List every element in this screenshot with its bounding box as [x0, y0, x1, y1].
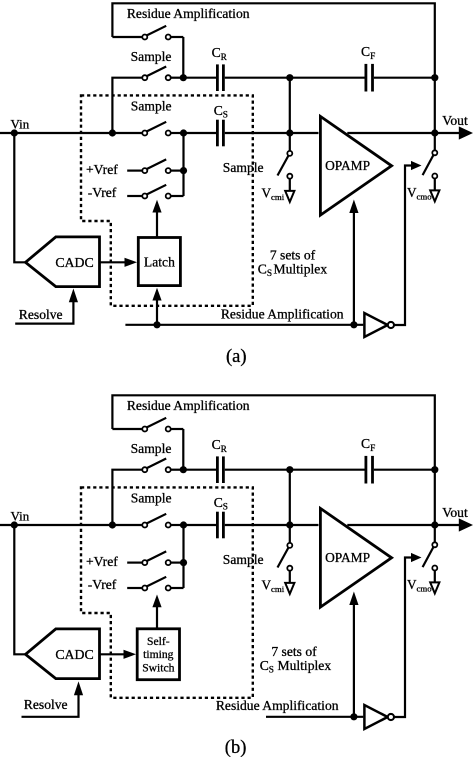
- wire: inverter output to Vcmo control (b): [394, 558, 412, 718]
- wire: summing node to opamp (b): [290, 524, 319, 526]
- switch: +Vref (a): [127, 159, 183, 173]
- svg-text:-Vref: -Vref: [88, 185, 117, 200]
- wire: node to C_S (a): [184, 132, 217, 134]
- CADC comparator block (a): [26, 237, 100, 287]
- wire: resolve input (a): [15, 302, 73, 324]
- junction: C_F / feedback node (a): [431, 74, 438, 81]
- svg-text:CADC: CADC: [55, 255, 93, 270]
- arrow: Vcmo switch control (a): [411, 161, 422, 170]
- capacitor C_R (a): [217, 64, 223, 91]
- label: 7 sets of C_S multiplex (a): [258, 247, 328, 279]
- wire: C_R row left leg (a): [112, 78, 142, 133]
- wire: vref column (a): [182, 133, 184, 196]
- wire: summing column C_R row to input row (a): [289, 78, 291, 133]
- latch box (a): [138, 238, 180, 286]
- ground: Vcmi (a): [285, 191, 294, 202]
- wire: residue-amplification feedback top (a): [112, 3, 434, 77]
- svg-text:OPAMP: OPAMP: [325, 158, 370, 173]
- capacitor C_S (b): [217, 512, 223, 539]
- wire: node to C_S (b): [184, 524, 217, 526]
- switch: sample C_R (a): [142, 67, 183, 81]
- wire: vref column (b): [182, 525, 184, 588]
- wire: C_R to summing node (b): [225, 469, 290, 471]
- junction: C_F / feedback node (b): [431, 466, 438, 473]
- switch: -Vref (a): [127, 185, 183, 199]
- svg-text:CADC: CADC: [55, 647, 93, 662]
- arrow: residue amplification enable to opamp (a): [349, 200, 358, 325]
- svg-text:Resolve: Resolve: [24, 697, 68, 712]
- wire: residue amplification bottom line (a): [125, 324, 363, 326]
- svg-text:Vout: Vout: [442, 505, 468, 520]
- svg-text:(a): (a): [226, 347, 247, 367]
- junction: Vin sample column (b): [109, 521, 116, 528]
- svg-text:Multiplex: Multiplex: [274, 261, 328, 276]
- svg-text:Sample: Sample: [131, 99, 172, 114]
- inverter (a): [364, 313, 394, 337]
- junction: +vref node (a): [180, 167, 187, 174]
- junction: top summing node (b): [286, 466, 293, 473]
- ground: Vcmo (a): [430, 190, 439, 201]
- svg-text:Residue Amplification: Residue Amplification: [216, 698, 339, 713]
- svg-text:timing: timing: [143, 648, 173, 661]
- wire: node to C_R (b): [183, 469, 216, 471]
- svg-text:Residue Amplification: Residue Amplification: [127, 6, 250, 21]
- svg-text:Residue Amplification: Residue Amplification: [221, 306, 344, 321]
- junction: Vin CADC tap (b): [11, 521, 18, 528]
- junction: C_R switch node (b): [180, 466, 187, 473]
- wire: residue switch down to C_R node (b): [182, 429, 184, 470]
- wire: feedback node down to Vout node (b): [434, 470, 436, 525]
- CADC comparator block (b): [26, 629, 100, 679]
- junction: opamp input summing node (a): [286, 129, 293, 136]
- svg-text:Latch: Latch: [144, 255, 175, 270]
- dashed boundary: C_S multiplex block (a): [81, 95, 253, 305]
- switch: sample C_R (b): [142, 459, 183, 473]
- switch: -Vref (b): [127, 577, 183, 591]
- arrow: resolve into CADC (b): [74, 681, 83, 695]
- dashed boundary: C_S multiplex block (b): [81, 487, 253, 697]
- wire: C_R to summing node (a): [225, 77, 290, 79]
- wire: C_S to summing node (b): [225, 524, 290, 526]
- wire: opamp output / Vout row (a): [347, 132, 459, 134]
- wire: node to C_R (a): [183, 77, 216, 79]
- switch: Vcmi sampling (b): [278, 525, 293, 582]
- svg-text:-Vref: -Vref: [88, 577, 117, 592]
- wire: residue switch down to C_R node (a): [182, 37, 184, 78]
- junction: opamp enable tap (b): [350, 713, 357, 720]
- wire: C_S to summing node (a): [225, 132, 290, 134]
- ground: Vcmi (b): [285, 583, 294, 594]
- wire: summing node to opamp (a): [290, 132, 319, 134]
- switch: Vcmi sampling (a): [278, 133, 293, 190]
- capacitor C_F (a): [366, 64, 373, 92]
- arrow: latch strobe to -Vref switch (a): [152, 200, 161, 238]
- junction: latch enable tap (a): [153, 321, 160, 328]
- wire: feedback node down to Vout node (a): [434, 78, 436, 133]
- output arrow: Vout (b): [459, 518, 473, 531]
- wire: C_F to Vout node (b): [374, 469, 435, 471]
- capacitor C_F (b): [366, 456, 373, 484]
- arrow: residue amplification enable to opamp (b): [349, 592, 358, 717]
- svg-text:Self-: Self-: [147, 635, 170, 648]
- wire: residue amplification bottom line (b): [266, 716, 363, 718]
- junction: opamp input summing node (b): [286, 521, 293, 528]
- svg-text:7 sets of: 7 sets of: [271, 644, 317, 659]
- ground: Vcmo (b): [430, 582, 439, 593]
- op-amp U1 (a): [320, 116, 391, 215]
- label: 7 sets of C_S multiplex (b): [260, 644, 332, 675]
- junction: Vout node (a): [431, 129, 438, 136]
- junction: +vref node (b): [180, 559, 187, 566]
- wire: Vin down to CADC (a): [14, 133, 25, 262]
- wire: Vin input row (a): [0, 132, 142, 134]
- capacitor C_R (b): [217, 456, 223, 483]
- switch: Vcmo output (b): [423, 525, 438, 582]
- junction: Vout node (b): [431, 521, 438, 528]
- switch: residue amplification (a): [112, 26, 183, 40]
- wire: resolve input (b): [22, 695, 79, 717]
- wire: C_R row left leg (b): [112, 470, 142, 525]
- svg-text:Switch: Switch: [142, 661, 174, 674]
- wire: Vin down to CADC (b): [14, 525, 25, 654]
- arrow: resolve into CADC (a): [69, 289, 78, 303]
- wire: summing column C_R row to input row (b): [289, 470, 291, 525]
- junction: C_S switch node (a): [180, 129, 187, 136]
- wire: inverter output to Vcmo control (a): [394, 166, 412, 326]
- switch: residue amplification (b): [112, 418, 183, 432]
- junction: C_S switch node (b): [180, 521, 187, 528]
- svg-text:Sample: Sample: [131, 491, 172, 506]
- junction: Vin CADC tap (a): [11, 129, 18, 136]
- svg-text:Sample: Sample: [131, 441, 172, 456]
- junction: C_R switch node (a): [180, 74, 187, 81]
- svg-text:OPAMP: OPAMP: [325, 550, 370, 565]
- label: Self-timing Switch (b): [142, 635, 174, 674]
- capacitor C_S (a): [217, 120, 223, 147]
- svg-text:+Vref: +Vref: [86, 162, 118, 177]
- arrow: CADC to self-timing switch (b): [100, 650, 137, 659]
- svg-text:Sample: Sample: [131, 49, 172, 64]
- junction: top summing node (a): [286, 74, 293, 81]
- wire: summing node to C_F (b): [290, 469, 365, 471]
- wire: C_F to Vout node (a): [374, 77, 435, 79]
- switch: +Vref (b): [127, 551, 183, 565]
- svg-text:(b): (b): [225, 738, 247, 757]
- self-timing switch box (b): [137, 629, 179, 680]
- svg-text:Resolve: Resolve: [19, 307, 63, 322]
- svg-text:Vin: Vin: [11, 509, 30, 524]
- switch: sample C_S (b): [142, 514, 183, 528]
- svg-text:Vout: Vout: [442, 113, 468, 128]
- wire: opamp output / Vout row (b): [347, 524, 459, 526]
- wire: Vin input row (b): [0, 524, 142, 526]
- output arrow: Vout (a): [459, 126, 473, 139]
- wire: residue-amplification feedback top (b): [112, 395, 434, 469]
- arrow: bottom line to latch (a): [152, 288, 161, 325]
- svg-text:Residue Amplification: Residue Amplification: [127, 398, 250, 413]
- wire: summing node to C_F (a): [290, 77, 365, 79]
- switch: sample C_S (a): [142, 122, 183, 136]
- svg-text:Sample: Sample: [223, 160, 264, 175]
- svg-text:Multiplex: Multiplex: [278, 658, 332, 673]
- arrow: Vcmo switch control (b): [411, 553, 422, 562]
- junction: opamp enable tap (a): [350, 321, 357, 328]
- arrow: self-timing strobe to -Vref switch (b): [152, 595, 161, 629]
- svg-text:Sample: Sample: [223, 552, 264, 567]
- junction: Vin sample column (a): [109, 129, 116, 136]
- inverter (b): [364, 705, 394, 729]
- switch: Vcmo output (a): [423, 133, 438, 190]
- arrow: CADC to Latch (a): [100, 258, 138, 267]
- svg-text:Vin: Vin: [11, 117, 30, 132]
- svg-text:+Vref: +Vref: [86, 554, 118, 569]
- op-amp U1 (b): [320, 508, 391, 607]
- svg-text:7 sets of: 7 sets of: [270, 247, 316, 262]
